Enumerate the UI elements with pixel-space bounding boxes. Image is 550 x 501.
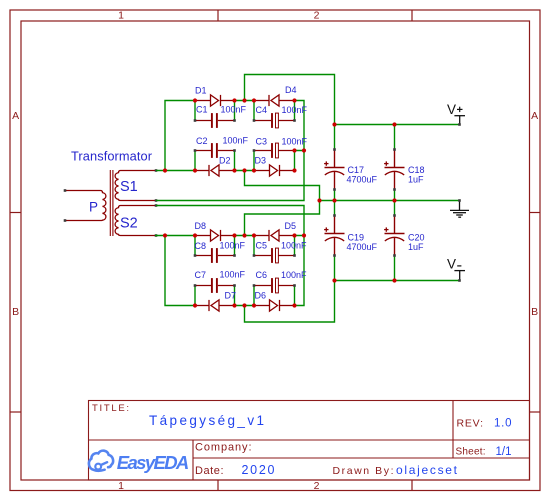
svg-text:1/1: 1/1 xyxy=(496,446,512,458)
pin ends filter capacitors xyxy=(333,148,396,257)
svg-text:100nF: 100nF xyxy=(282,137,308,147)
wire AC3 right column of lower bridge xyxy=(295,236,305,306)
svg-text:C20: C20 xyxy=(408,233,425,243)
diode D1 xyxy=(195,95,235,106)
svg-text:P: P xyxy=(89,200,98,215)
svg-text:Transformator: Transformator xyxy=(71,149,153,164)
capacitor C1 xyxy=(195,113,235,128)
wire V+ rail to C17, C18, V+ flag xyxy=(335,125,460,150)
svg-text:B: B xyxy=(12,306,19,318)
capacitor C5 xyxy=(254,248,295,263)
wire GND stubs C17 bottom to C19 top, C18 bottom to C20 top xyxy=(335,190,395,216)
wire GND node upper bridge bottom mid with C2/C3 stubs xyxy=(235,151,255,171)
svg-text:EasyEDA: EasyEDA xyxy=(117,452,190,473)
diode D2 xyxy=(195,165,235,176)
svg-text:Sheet:: Sheet: xyxy=(456,447,486,458)
svg-text:1: 1 xyxy=(118,480,124,492)
pin ends upper bridge capacitors xyxy=(194,119,296,152)
diode D8 xyxy=(195,230,235,241)
wire V- link to V- rail xyxy=(245,281,335,323)
wire net AC2: upper bridge right column to S1 bottom xyxy=(156,101,304,201)
capacitor C2 xyxy=(195,143,235,158)
transformer T1 primary winding P xyxy=(65,191,106,221)
diode D6 xyxy=(254,300,295,311)
title block xyxy=(89,401,530,481)
svg-text:A: A xyxy=(12,110,19,122)
svg-text:REV:: REV: xyxy=(457,418,484,430)
svg-text:D5: D5 xyxy=(285,221,297,231)
capacitor C3 xyxy=(254,143,295,158)
svg-text:D2: D2 xyxy=(219,156,231,166)
capacitor C4 xyxy=(254,113,295,128)
wire GND rail xyxy=(320,200,460,202)
net flag V- xyxy=(447,256,465,280)
capacitor C18 xyxy=(384,150,404,190)
svg-text:100nF: 100nF xyxy=(282,105,308,115)
svg-text:S1: S1 xyxy=(120,179,138,195)
svg-text:1.0: 1.0 xyxy=(494,418,512,430)
junction dots rails xyxy=(317,122,396,282)
capacitor C8 xyxy=(195,248,235,263)
svg-text:100nF: 100nF xyxy=(281,270,307,280)
svg-text:C8: C8 xyxy=(195,241,207,251)
capacitor C17 xyxy=(324,150,344,190)
capacitor C6 xyxy=(254,278,295,293)
wire net AC3: S2 top to lower bridge right column xyxy=(156,206,304,236)
transformer T1 core xyxy=(110,170,113,236)
wire AC2 stubs to C4 right / D3 cathode xyxy=(294,101,296,171)
transformer pin ends xyxy=(64,169,158,237)
svg-text:100nF: 100nF xyxy=(223,136,249,146)
svg-text:C19: C19 xyxy=(348,233,365,243)
wire net AC1: S1 top to upper bridge left column xyxy=(156,101,195,171)
svg-text:A: A xyxy=(531,110,538,122)
svg-text:4700uF: 4700uF xyxy=(347,175,378,185)
capacitor C7 xyxy=(195,278,235,293)
net flag V+ xyxy=(447,102,465,125)
wire GND node lower bridge top mid with C8/C5 stubs xyxy=(235,236,255,256)
svg-text:olajecset: olajecset xyxy=(396,463,458,477)
svg-text:2020: 2020 xyxy=(242,463,275,477)
svg-text:TITLE:: TITLE: xyxy=(92,403,129,414)
wire AC3 stubs to C5 right / C6 right xyxy=(294,236,296,306)
capacitor C19 xyxy=(324,216,344,256)
EasyEDA logo xyxy=(89,451,113,471)
svg-text:D7: D7 xyxy=(225,291,237,301)
svg-text:D8: D8 xyxy=(195,221,207,231)
svg-text:D3: D3 xyxy=(255,156,267,166)
wire end markers at net flags xyxy=(458,123,461,282)
svg-text:C5: C5 xyxy=(256,241,268,251)
svg-text:C6: C6 xyxy=(256,270,268,280)
transformer T1 secondary winding S2 xyxy=(115,206,156,236)
svg-text:C17: C17 xyxy=(348,165,365,175)
transformer T1 secondary winding S1 xyxy=(115,171,156,201)
svg-text:Date:: Date: xyxy=(195,465,224,477)
svg-text:C18: C18 xyxy=(408,165,425,175)
svg-text:100nF: 100nF xyxy=(281,241,307,251)
svg-text:4700uF: 4700uF xyxy=(347,242,378,252)
svg-text:C1: C1 xyxy=(196,105,208,115)
pin ends lower bridge capacitors xyxy=(194,254,296,287)
svg-text:D1: D1 xyxy=(195,86,207,96)
junction dots upper bridge xyxy=(163,98,306,172)
svg-text:C7: C7 xyxy=(195,270,207,280)
junction dots lower bridge xyxy=(163,233,306,307)
diode D7 xyxy=(195,300,235,311)
wire V+ node segment with stubs to C1 right / C4 left xyxy=(235,101,255,121)
svg-text:1uF: 1uF xyxy=(408,242,424,252)
wire net V-: lower bridge bottom mid with C7/C6 stubs xyxy=(235,286,255,306)
svg-text:Drawn By:: Drawn By: xyxy=(333,465,394,477)
svg-text:Company:: Company: xyxy=(195,442,252,454)
wire V- stubs C19 bottom, C20 bottom xyxy=(335,256,395,281)
svg-text:100nF: 100nF xyxy=(220,270,246,280)
wire net AC4: S2 bottom to lower bridge left column xyxy=(155,236,195,306)
svg-text:V: V xyxy=(447,102,456,117)
svg-text:1: 1 xyxy=(118,10,124,22)
ground symbol xyxy=(450,201,469,218)
svg-text:C3: C3 xyxy=(256,137,268,147)
svg-text:D6: D6 xyxy=(255,291,267,301)
wire AC4 stubs to C8 left / C7 left xyxy=(194,236,196,306)
svg-text:D4: D4 xyxy=(285,85,297,95)
svg-text:2: 2 xyxy=(314,10,320,22)
svg-text:1uF: 1uF xyxy=(408,175,424,185)
wire net V+: upper bridge top mid up and over to V+ rail xyxy=(245,75,335,125)
capacitor C20 xyxy=(384,216,404,256)
diode D5 xyxy=(254,230,295,241)
svg-text:C2: C2 xyxy=(196,136,208,146)
wire V- rail xyxy=(335,280,460,282)
svg-text:V: V xyxy=(447,256,456,271)
svg-text:100nF: 100nF xyxy=(221,105,247,115)
svg-text:2: 2 xyxy=(314,480,320,492)
svg-text:100nF: 100nF xyxy=(220,241,246,251)
diode D3 xyxy=(254,165,295,176)
svg-text:C4: C4 xyxy=(256,105,268,115)
svg-text:B: B xyxy=(531,306,538,318)
diode D4 xyxy=(254,95,295,106)
wire net GND: upper bridge minus to lower bridge plus xyxy=(245,171,320,236)
svg-text:S2: S2 xyxy=(120,216,138,232)
wire AC1 stubs to C1 left / C2 left xyxy=(194,101,196,171)
